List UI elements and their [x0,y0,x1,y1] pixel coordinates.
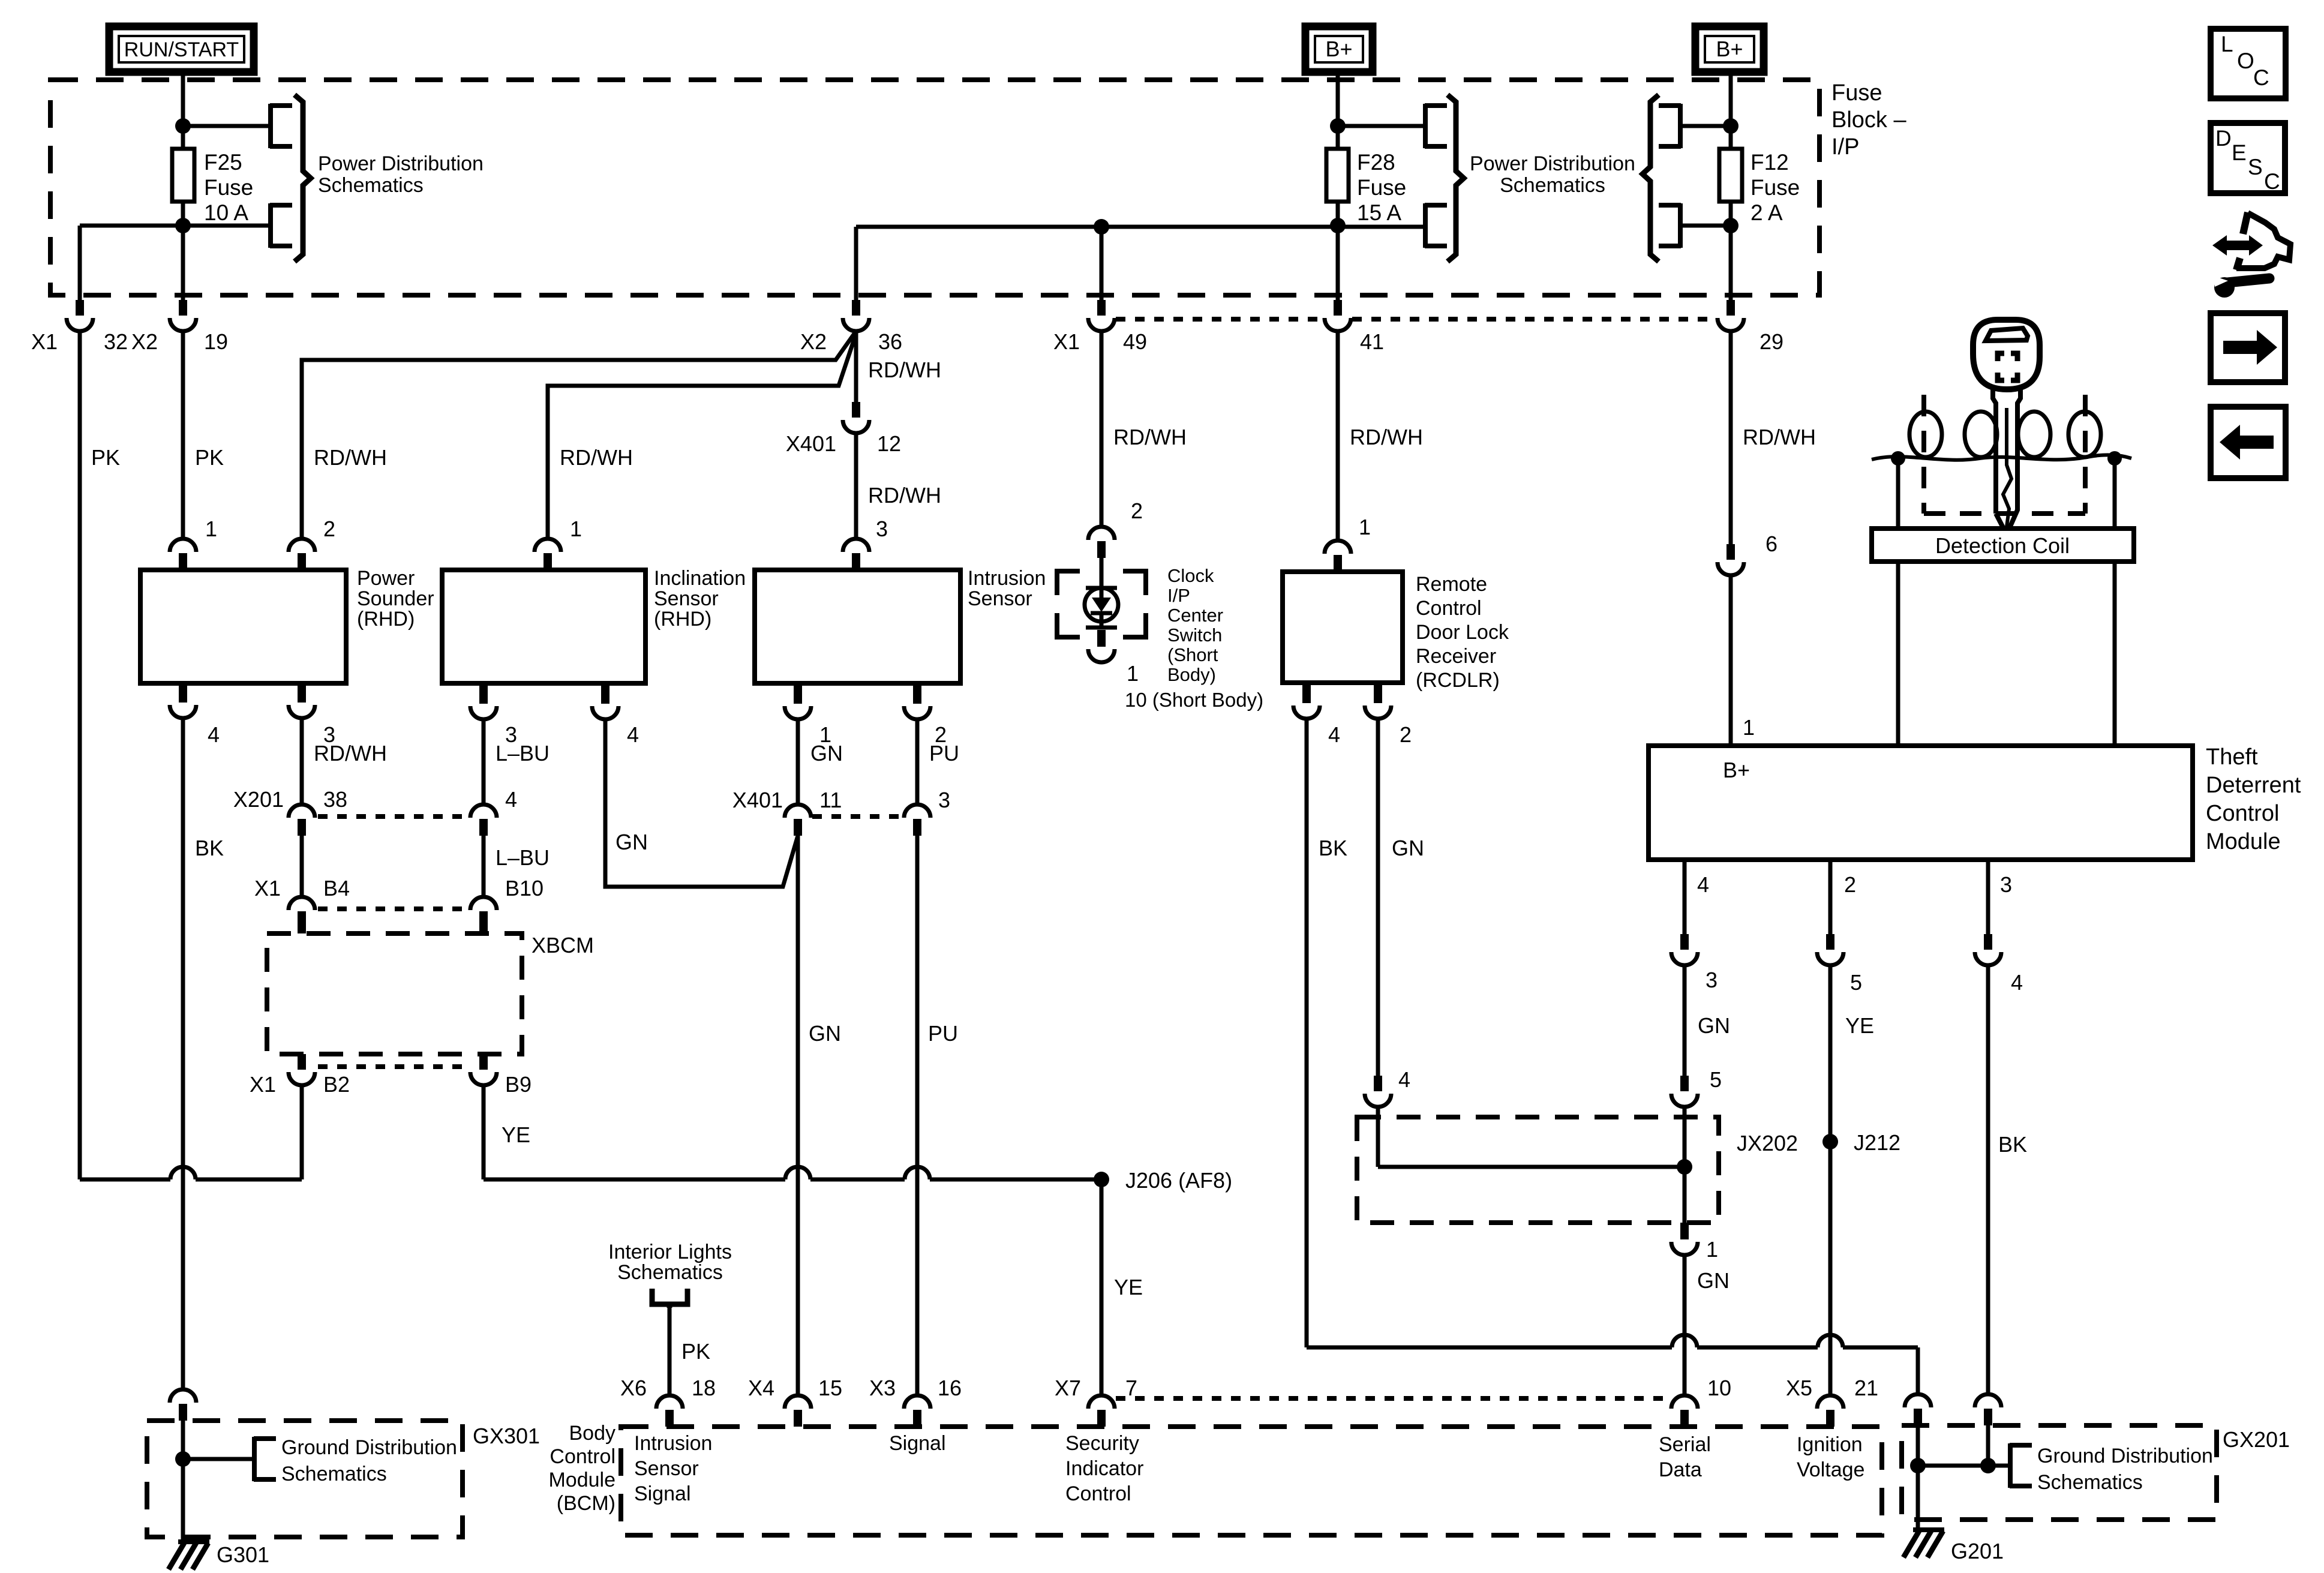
ground G201 [1913,1527,1944,1532]
svg-text:2: 2 [1131,499,1143,523]
connector GX201 left entry [1905,1394,1931,1407]
tie line B2 to X1-32 [80,1178,170,1182]
node J212 [1822,1134,1838,1149]
svg-text:4: 4 [505,787,517,812]
wire stub X1-49 [1100,295,1104,300]
svg-text:X401: X401 [786,431,836,456]
svg-text:GN: GN [615,830,648,854]
svg-text:Signal: Signal [634,1482,691,1505]
node J206 (AF8) [1094,1172,1109,1187]
wire YE to BCM X5-21 [1828,966,1833,1395]
svg-text:Body: Body [569,1422,616,1445]
connector X1 49 [1097,300,1106,316]
svg-text:Power Distribution: Power Distribution [318,152,484,175]
svg-text:C: C [2253,65,2269,90]
svg-text:GN: GN [810,741,843,766]
bracket F25 lower feed [270,203,292,248]
svg-text:18: 18 [692,1376,716,1400]
svg-text:Control: Control [1065,1482,1131,1505]
svg-text:BK: BK [1998,1132,2027,1157]
Detection Coil box [1872,529,2134,562]
svg-text:5: 5 [1710,1067,1722,1092]
dotted pair X1 B4-B10 [318,906,468,911]
svg-text:16: 16 [938,1376,962,1400]
wire stub X2-36 [854,295,858,300]
connector X1 32 [76,300,84,316]
bracket F12 lower feed [1659,203,1681,248]
svg-text:3: 3 [2000,872,2012,897]
svg-text:2: 2 [1400,722,1412,747]
svg-text:GX201: GX201 [2223,1427,2290,1452]
wire fanout X2-36 to power sounder pin2 [302,331,856,539]
connector 1/10 clock switch [1097,630,1106,647]
wire X1-32 inside fuse block [78,226,82,295]
svg-text:Schematics: Schematics [617,1261,723,1284]
svg-text:Schematics: Schematics [2037,1471,2143,1494]
connector B9 [479,1054,488,1070]
wire RUN/START to F25 [181,72,185,149]
svg-text:X1: X1 [250,1072,276,1097]
pin 1 power sounder [170,539,196,552]
svg-text:Door Lock: Door Lock [1416,621,1509,644]
wire lower junction to X1-32 drop [80,224,268,228]
svg-text:RD/WH: RD/WH [1113,425,1187,449]
svg-text:F12: F12 [1750,150,1789,175]
node coil left [1891,451,1905,466]
wire stub X1-32 [78,295,82,300]
svg-text:Intrusion: Intrusion [968,567,1046,590]
node F28 upper junction [1330,118,1346,134]
svg-text:Data: Data [1659,1458,1702,1481]
wire inclination pin3 L-BU [479,683,488,704]
svg-text:X401: X401 [732,788,783,812]
svg-text:Clock: Clock [1167,565,1214,586]
svg-text:RUN/START: RUN/START [124,38,239,61]
svg-text:B+: B+ [1716,37,1743,61]
connector X7 7 [1088,1395,1115,1409]
svg-text:Schematics: Schematics [281,1463,387,1485]
wire fanout X2-36 to inclination pin1 [548,334,856,539]
pin 4 RCDLR [1302,683,1311,703]
svg-text:Fuse: Fuse [1357,175,1406,200]
svg-text:4: 4 [2011,970,2023,995]
svg-text:Sensor: Sensor [634,1457,699,1480]
svg-text:(BCM): (BCM) [557,1492,615,1515]
node coil right [2107,451,2122,466]
connector 4 (JX202 GN) [1374,1076,1382,1091]
connector X1 B2 [298,1054,306,1070]
svg-text:RD/WH: RD/WH [868,483,941,508]
svg-text:Ignition: Ignition [1797,1433,1863,1456]
wire GN X401-11 to BCM X4-15 [796,836,800,1395]
wire X2-36 to X401-12 [854,331,858,402]
svg-text:3: 3 [1706,968,1718,992]
svg-text:X6: X6 [620,1376,647,1400]
connector X2 19 [179,300,187,316]
icon LOC box [2211,29,2286,98]
svg-text:YE: YE [1114,1275,1143,1299]
dashed key slot box [1921,395,1926,514]
svg-text:Ground Distribution: Ground Distribution [281,1436,457,1459]
svg-text:1: 1 [205,517,217,541]
svg-text:(RHD): (RHD) [357,608,415,631]
bracket F28 lower feed [1425,203,1447,248]
wire stub X2-19 [181,295,185,300]
brace F28 power distribution [1448,95,1464,262]
svg-text:Sensor: Sensor [968,587,1032,610]
key head dashed center marks [1998,353,2017,380]
module RCDLR [1283,572,1403,683]
svg-text:41: 41 [1360,329,1384,354]
svg-text:4: 4 [627,722,639,747]
svg-text:BK: BK [1319,836,1347,860]
svg-text:Deterrent: Deterrent [2206,773,2301,798]
svg-text:(RHD): (RHD) [654,608,711,631]
svg-text:B10: B10 [505,876,544,900]
module Power Sounder (RHD) [140,570,346,683]
connector 41 [1334,300,1342,316]
svg-text:RD/WH: RD/WH [868,358,941,382]
coil housing [1896,458,1900,529]
connector bank dotted line [1116,317,1323,322]
svg-text:21: 21 [1854,1376,1878,1400]
wire power sounder pin3 RD/WH [298,682,306,703]
svg-text:32: 32 [104,329,128,354]
svg-text:S: S [2248,155,2263,179]
svg-text:1: 1 [1127,661,1139,686]
node GX201 splice left [1910,1458,1926,1473]
coil column to TDCM [1896,562,1900,746]
svg-text:Control: Control [550,1445,615,1468]
icon arrow left box [2211,407,2286,478]
node GX201 splice right [1980,1458,1996,1473]
wire GN to JX202 pin5 [1683,966,1687,1076]
svg-text:(Short: (Short [1167,644,1218,665]
svg-text:X1: X1 [31,329,58,354]
svg-text:Intrusion: Intrusion [634,1432,712,1455]
connector X201 38 [289,804,315,818]
svg-text:X2: X2 [800,329,827,354]
node F12 lower junction [1723,218,1739,233]
svg-text:Block –: Block – [1831,107,1906,133]
svg-text:4: 4 [1697,872,1709,897]
wire X201-38 to X1-B4 [300,836,304,897]
wire YE run to J206 [484,1178,785,1182]
connector 3 (X401) [904,804,930,818]
wire B9 YE down [482,1085,486,1179]
svg-text:GN: GN [1392,836,1424,860]
wire X1-32 PK/BK down [78,331,82,1179]
connector X5 21 [1817,1395,1843,1409]
connector X6 18 [656,1395,683,1409]
bracket ground distribution GX301 [254,1437,276,1481]
node F12 upper junction [1723,118,1739,134]
svg-text:10 A: 10 A [204,200,248,225]
svg-text:Remote: Remote [1416,573,1487,596]
svg-text:4: 4 [1328,722,1340,747]
svg-text:JX202: JX202 [1737,1131,1798,1155]
connector X2 36 [852,300,860,316]
svg-text:X7: X7 [1055,1376,1081,1400]
svg-text:2 A: 2 A [1750,200,1783,225]
svg-text:PK: PK [91,445,120,470]
node bus to X1-49 [1094,219,1109,235]
wire BK to GX201 [1986,966,1990,1394]
svg-text:Indicator: Indicator [1065,1457,1143,1480]
wire RCDLR pin2 GN down [1376,719,1380,1076]
connector X1 B4 [289,897,315,910]
connector X401 11 [785,804,811,818]
svg-text:X5: X5 [1786,1376,1812,1400]
node GX301 splice [175,1451,191,1467]
connector GX201 right entry [1975,1394,2001,1407]
wire stub 41 [1336,295,1340,300]
svg-text:YE: YE [502,1122,530,1147]
wire 29 RD/WH to connector 6 [1729,331,1733,544]
wire F12 to connector 29 [1729,202,1733,295]
svg-text:Body): Body) [1167,664,1216,685]
svg-text:L–BU: L–BU [496,741,550,766]
svg-text:12: 12 [877,431,901,456]
wire BK inside GX201 right [1986,1425,1990,1466]
wire inclination pin4 GN [601,683,609,704]
svg-text:2: 2 [1844,872,1856,897]
svg-text:Interior Lights: Interior Lights [608,1241,732,1263]
svg-text:GN: GN [1698,1013,1730,1038]
ignition key head [1973,320,2040,389]
connector B10 [470,897,497,910]
connector 4 (TDCM pin3) [1984,934,1992,950]
wire fuse output bus [856,225,1423,229]
ground G301 [178,1539,209,1544]
svg-text:G301: G301 [217,1542,269,1567]
svg-text:Serial: Serial [1659,1433,1711,1456]
svg-text:J212: J212 [1854,1130,1900,1155]
svg-text:1: 1 [1706,1237,1718,1262]
connector 5 (TDCM pin2) [1826,934,1834,950]
svg-text:Signal: Signal [889,1432,946,1455]
module Intrusion Sensor [755,570,960,683]
svg-text:L–BU: L–BU [496,845,550,870]
svg-text:F28: F28 [1357,150,1395,175]
brace F25 power distribution [295,95,311,262]
svg-text:(RCDLR): (RCDLR) [1416,669,1500,692]
bracket interior lights [652,1289,687,1308]
svg-text:Theft: Theft [2206,745,2258,770]
pin 2 power sounder [289,539,315,552]
svg-text:Sensor: Sensor [654,587,719,610]
wire GX301 to G301 [181,1537,185,1543]
svg-text:Fuse: Fuse [1750,175,1800,200]
svg-text:1: 1 [1359,515,1371,539]
terminal RUN/START [109,26,254,72]
svg-text:E: E [2232,140,2247,165]
svg-text:5: 5 [1850,970,1862,995]
svg-text:Module: Module [2206,829,2281,854]
svg-text:O: O [2237,49,2254,73]
svg-text:3: 3 [938,788,950,812]
svg-text:L: L [2221,32,2233,56]
connector 10 [1671,1395,1698,1409]
svg-text:Security: Security [1065,1432,1139,1455]
svg-text:49: 49 [1123,329,1147,354]
svg-text:15: 15 [818,1376,842,1400]
connector 5 (JX202) [1680,1076,1689,1091]
svg-text:PK: PK [681,1339,710,1364]
wire intrusion pin2 PU [913,683,921,704]
svg-text:B4: B4 [323,876,350,900]
wire X2-19 PK to power sounder pin1 [181,331,185,539]
ground block GX301 dashed box [147,1421,463,1537]
pin 3 intrusion sensor [843,539,869,552]
module Theft Deterrent Control Module [1649,746,2193,860]
wire connector 6 to TDCM pin1 [1729,577,1733,746]
connector 29 [1727,300,1735,316]
svg-text:Inclination: Inclination [654,567,746,590]
icon wrench with arrows [2243,212,2248,234]
ground block GX201 dashed box [1902,1425,2217,1520]
svg-text:X2: X2 [131,329,158,354]
svg-text:RD/WH: RD/WH [560,445,633,470]
bracket F28 upper feed [1425,104,1447,148]
svg-text:Receiver: Receiver [1416,645,1496,668]
svg-text:GX301: GX301 [473,1424,540,1448]
connector X3 16 [904,1395,930,1409]
svg-text:PK: PK [195,445,224,470]
svg-text:PU: PU [929,741,959,766]
svg-text:36: 36 [878,329,902,354]
svg-text:10 (Short Body): 10 (Short Body) [1125,689,1263,711]
fuse F25 10A [172,149,194,202]
wire bus drop to X2-36 [854,227,858,295]
wire B+ to F28 [1336,72,1340,149]
svg-text:11: 11 [819,788,842,812]
wire PK interior lights to X6-18 [668,1307,672,1395]
svg-text:RD/WH: RD/WH [314,741,387,766]
coil winding wire [1872,455,2131,460]
dotted X7 bank line [1116,1396,1670,1401]
svg-text:RD/WH: RD/WH [314,445,387,470]
svg-text:1: 1 [570,517,582,541]
svg-text:4: 4 [208,722,220,747]
node F25 lower junction [175,218,191,233]
svg-text:4: 4 [1398,1067,1410,1092]
terminal B+ (F28 feed) [1305,26,1373,72]
wire B2 to X1-32 tie [300,1085,304,1179]
terminal B+ (F12 feed) [1695,26,1764,72]
wire BK inside GX201 left [1916,1425,1920,1520]
svg-text:Module: Module [548,1469,615,1491]
bracket F12 upper feed [1659,104,1681,148]
svg-text:RD/WH: RD/WH [1743,425,1816,449]
pin 2 RCDLR [1374,683,1382,703]
icon DESC box [2211,123,2285,193]
wire PU to BCM X3-16 [915,836,920,1395]
svg-text:Power: Power [357,567,415,590]
svg-text:Fuse: Fuse [1831,80,1882,106]
svg-text:X4: X4 [748,1376,774,1400]
clock LED lamp symbol [1100,558,1104,588]
detection coil loops [1909,412,1942,457]
wire GN to BCM connector 10 [1683,1255,1687,1395]
wire JX202 pin5 to pin1 [1683,1107,1687,1223]
svg-text:I/P: I/P [1831,134,1859,160]
fuse F12 2A [1719,149,1742,202]
svg-text:Ground Distribution: Ground Distribution [2037,1445,2213,1467]
svg-text:X3: X3 [869,1376,896,1400]
svg-text:XBCM: XBCM [532,933,594,957]
connector block XBCM dashed box [267,933,522,1054]
connector X401 12 [852,402,860,418]
brace F12 power distribution [1643,95,1659,262]
wire BK into GX301 [170,1389,196,1403]
wire B+ to F12 [1729,72,1733,149]
svg-text:B+: B+ [1325,37,1352,61]
dotted pair B2-B9 [318,1064,468,1069]
wire BK inside GX301 [181,1421,185,1537]
svg-text:F25: F25 [204,150,242,175]
junction JX202 splice [1677,1159,1692,1175]
svg-text:Center: Center [1167,605,1223,626]
fuse F28 15A [1326,149,1349,202]
svg-text:Voltage: Voltage [1797,1458,1864,1481]
svg-text:Control: Control [1416,597,1482,620]
svg-text:1: 1 [1743,715,1755,740]
svg-text:X1: X1 [254,876,281,900]
svg-text:I/P: I/P [1167,585,1190,606]
wire RCDLR pin4 BK down [1305,719,1309,1347]
connector 3 (TDCM pin4) [1680,934,1689,950]
wire X201-4 to B10 [482,836,486,897]
svg-text:C: C [2264,169,2280,194]
svg-text:6: 6 [1765,532,1777,556]
svg-text:Schematics: Schematics [1500,174,1605,197]
bracket ground distribution GX201 [2010,1443,2032,1488]
Fuse Block - I/P dashed outline [50,80,1819,295]
svg-text:Sounder: Sounder [357,587,434,610]
svg-text:B+: B+ [1723,758,1750,782]
svg-text:RD/WH: RD/WH [1350,425,1423,449]
wire X401-12 to intrusion pin3 [854,434,858,539]
svg-text:YE: YE [1845,1013,1874,1038]
connector 6 [1727,544,1735,560]
key neck and blade [1993,388,2020,535]
pin 1 inclination sensor [535,539,561,552]
svg-text:GN: GN [1697,1268,1730,1293]
wire TDCM pin4 GN [1683,860,1687,934]
connector 2 clock switch [1088,527,1115,540]
svg-text:Power Distribution: Power Distribution [1470,152,1635,175]
svg-text:G201: G201 [1951,1539,2004,1563]
svg-text:10: 10 [1707,1376,1731,1400]
svg-text:X1: X1 [1053,329,1080,354]
wire TDCM pin3 BK [1986,860,1990,934]
svg-text:X201: X201 [233,787,284,812]
svg-text:J206 (AF8): J206 (AF8) [1125,1168,1232,1193]
svg-text:BK: BK [195,836,224,860]
svg-text:29: 29 [1759,329,1783,354]
bracket F25 upper feed [270,104,292,148]
wire TDCM pin2 YE [1828,860,1833,934]
splice block JX202 dashed box [1357,1117,1719,1223]
svg-text:Control: Control [2206,801,2280,826]
wire X1-49 RD/WH to clock switch [1100,331,1104,527]
wire GN into JX202 [1376,1107,1380,1167]
svg-text:38: 38 [323,787,347,812]
module Body Control Module dashed box [621,1427,1882,1535]
wire GX201 to G201 [1916,1520,1920,1530]
svg-text:15 A: 15 A [1357,200,1401,225]
